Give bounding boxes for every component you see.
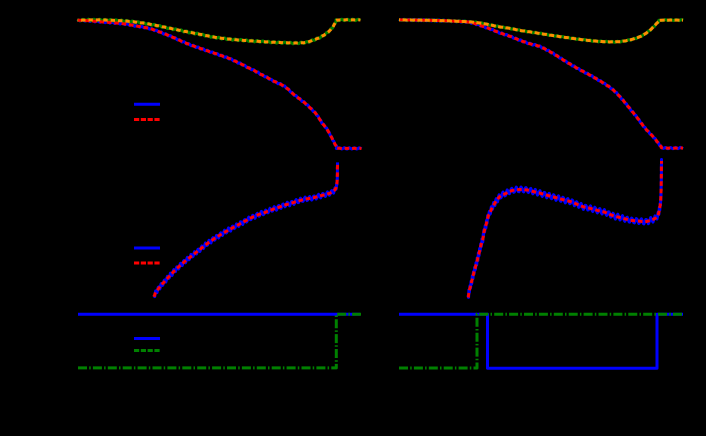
middle-right panel: blue solid wiggly curve: [468, 160, 661, 298]
middle-left panel: red dashed curve: [154, 163, 338, 297]
top-left panel: blue solid curve: [78, 20, 362, 150]
top-left panel: green solid curve: [78, 19, 361, 44]
bottom-left panel: green dash-dot control line (low then high): [78, 314, 361, 368]
top-left panel: red dashed curve: [78, 20, 362, 148]
middle-left legend: red dashed sample: [134, 262, 160, 265]
top-left legend: blue solid sample: [134, 103, 160, 106]
top-left legend: red dashed sample: [134, 118, 160, 121]
bottom-right panel: green dash-dot control line (low then high): [399, 314, 683, 368]
middle-left legend: blue solid sample: [134, 247, 160, 250]
top-left panel: orange dashed curve: [78, 20, 361, 43]
top-right panel: red dashed curve: [399, 20, 683, 148]
bottom-left panel: blue control line (high): [78, 313, 360, 316]
middle-left panel: blue solid wiggly curve: [154, 162, 338, 296]
top-right panel: orange dashed curve: [399, 20, 683, 42]
bottom-right panel: blue control line (high-low-high): [399, 314, 683, 368]
middle-right panel: red dashed curve: [468, 161, 661, 298]
bottom-left legend: blue solid sample: [134, 337, 160, 340]
bottom-left legend: green dashed sample: [134, 349, 160, 352]
top-right panel: green solid curve: [399, 19, 683, 42]
top-right panel: blue solid curve: [399, 19, 683, 149]
